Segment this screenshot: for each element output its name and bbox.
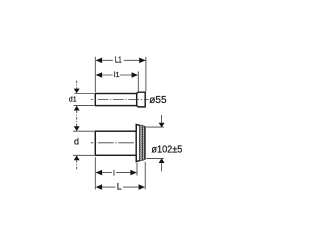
socket bead (top pipe right end) [137,92,146,107]
d extension lines [73,130,94,132]
flange hatched rim band [140,125,145,160]
dimension L1 [96,59,113,61]
svg-text:d: d [74,137,79,147]
flange right edge emphasized [144,127,146,160]
svg-text:L: L [117,182,122,192]
flange left edge full [135,124,137,161]
extension line right l1 [137,71,139,91]
svg-text:L1: L1 [115,55,122,64]
svg-text:l1: l1 [114,70,120,79]
svg-text:l: l [113,168,115,177]
pipe body (bottom) [95,131,136,155]
ø102 dimension arrows [161,115,163,123]
ø102 extension lines [146,126,164,128]
flange inner line [139,125,141,160]
extension line right l [136,163,138,176]
d dimension arrows [74,126,80,131]
dimension l [96,172,112,174]
flange middle contour [141,126,143,160]
flange outline [136,124,145,161]
svg-text:ø55: ø55 [149,95,167,106]
dimension l1 [96,74,113,76]
svg-text:ø102±5: ø102±5 [151,145,182,156]
svg-text:d1: d1 [69,94,77,103]
dimension L [96,186,115,188]
pipe body (top) [95,94,136,106]
d1 dimension arrows [76,81,78,89]
extension line right L1 [145,57,147,92]
extension line left (l/L) [94,157,96,189]
extension line left (L1/l1) [94,57,96,92]
d1 extension lines [74,93,94,95]
extension line right L [144,162,146,190]
centerline (bottom figure) [91,142,135,144]
centerline (top figure) [91,99,149,101]
